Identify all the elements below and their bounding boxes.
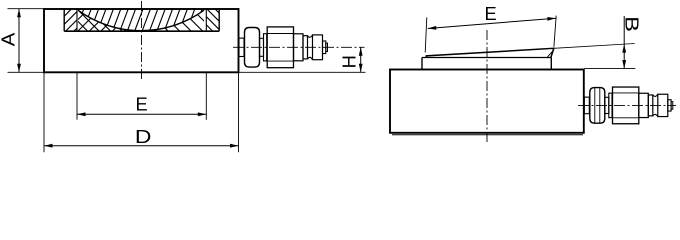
svg-text:D: D <box>135 127 152 147</box>
svg-text:H: H <box>338 55 359 68</box>
svg-text:E: E <box>135 93 147 114</box>
svg-text:B: B <box>621 16 641 32</box>
svg-text:E: E <box>484 3 496 24</box>
svg-text:A: A <box>0 32 19 46</box>
